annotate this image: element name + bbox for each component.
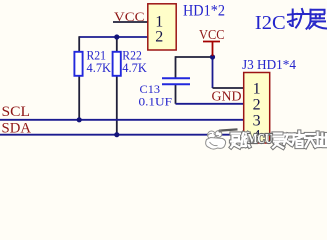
svg-text:0.1UF: 0.1UF [139,96,173,108]
svg-text:J3 HD1*4: J3 HD1*4 [242,57,296,72]
svg-text:4.7K: 4.7K [122,60,147,75]
svg-text:C13: C13 [140,84,161,96]
svg-text:GND: GND [212,88,242,103]
svg-text:VCC: VCC [114,9,145,24]
svg-text:HD1*2: HD1*2 [183,3,225,20]
svg-text:2: 2 [155,29,163,46]
svg-text:I2C: I2C [255,12,286,34]
svg-text:SDA: SDA [2,120,32,136]
svg-text:1: 1 [253,81,261,98]
svg-text:SCL: SCL [2,104,31,120]
svg-text:MCU: MCU [248,132,273,147]
svg-text:4.7K: 4.7K [87,60,112,75]
svg-text:VCC: VCC [199,27,225,42]
svg-text:2: 2 [253,96,261,113]
